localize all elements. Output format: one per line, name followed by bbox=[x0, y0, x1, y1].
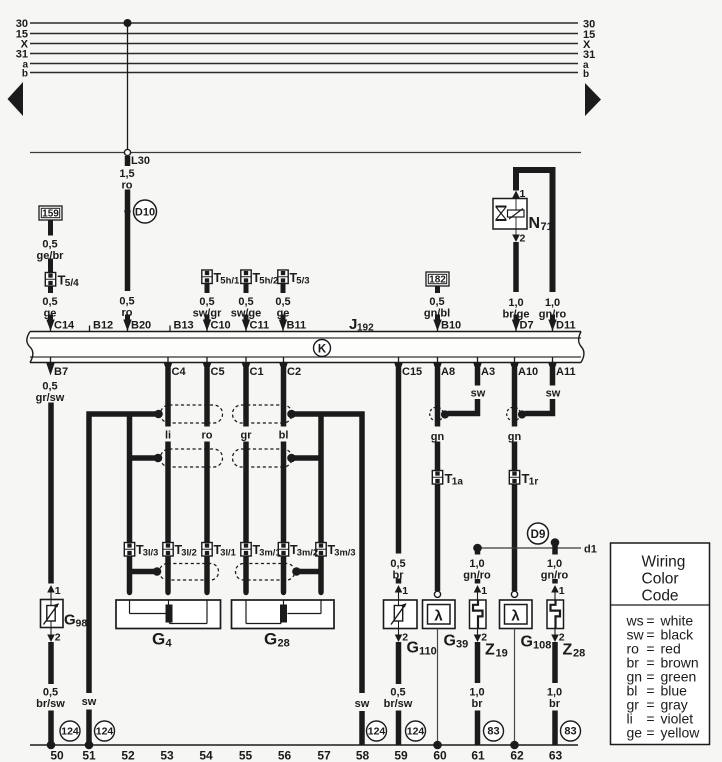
wire bus rail 30 bbox=[30, 22, 578, 24]
wire N71 pin2 down bbox=[513, 242, 519, 292]
svg-text:λ: λ bbox=[511, 608, 520, 625]
node terminal 62 bbox=[510, 741, 519, 750]
svg-text:C15: C15 bbox=[402, 366, 422, 378]
svg-text:51: 51 bbox=[82, 749, 96, 762]
wire A3 upper bbox=[475, 368, 481, 386]
wire bottom terminal rail bbox=[30, 744, 578, 746]
svg-text:G: G bbox=[152, 630, 165, 649]
connector T3m/2 bbox=[278, 543, 288, 557]
svg-text:Color: Color bbox=[642, 571, 679, 588]
connector T1a bbox=[432, 471, 442, 485]
node K circle bbox=[314, 340, 331, 357]
svg-text:63: 63 bbox=[549, 749, 563, 762]
wire shield row3 right bbox=[299, 569, 324, 575]
svg-text:1,0: 1,0 bbox=[545, 297, 560, 309]
svg-text:28: 28 bbox=[278, 638, 290, 650]
svg-text:G: G bbox=[64, 612, 76, 629]
svg-text:br: br bbox=[549, 698, 561, 710]
wire T5/3 down bbox=[281, 284, 286, 294]
svg-text:B10: B10 bbox=[441, 320, 461, 332]
wire to terminal 51 bbox=[86, 710, 92, 746]
pin 2 G98 bbox=[50, 628, 52, 636]
svg-text:sw: sw bbox=[82, 696, 97, 708]
svg-text:2: 2 bbox=[520, 233, 526, 245]
svg-text:98: 98 bbox=[76, 618, 88, 630]
svg-text:39: 39 bbox=[456, 639, 468, 651]
svg-text:C5: C5 bbox=[211, 366, 225, 378]
valve N71 box bbox=[493, 199, 527, 230]
wire bl upper bbox=[281, 368, 287, 427]
wire shield row2 right bbox=[292, 455, 324, 461]
wire bus rail 15 bbox=[30, 33, 578, 35]
wire A11 jumper bbox=[525, 399, 553, 414]
shield C4 C5 row1 bbox=[161, 405, 223, 423]
svg-text:54: 54 bbox=[199, 749, 213, 762]
pin B12 bbox=[89, 326, 91, 339]
sensor G98 bbox=[41, 600, 64, 628]
pin D7 bbox=[514, 315, 519, 321]
node shield right row2 bbox=[287, 454, 296, 463]
svg-text:50: 50 bbox=[50, 749, 64, 762]
wire G98 down bbox=[48, 642, 54, 684]
svg-text:124: 124 bbox=[407, 726, 425, 738]
svg-text:li: li bbox=[165, 430, 171, 442]
wire Z19 upper bbox=[475, 579, 481, 584]
wire ro lower bbox=[204, 442, 210, 544]
svg-text:sw: sw bbox=[471, 388, 486, 400]
ground designation 124 at 59 bbox=[406, 721, 426, 741]
svg-text:1: 1 bbox=[402, 585, 408, 597]
svg-text:19: 19 bbox=[496, 648, 508, 660]
pin 1 Z28 bbox=[551, 585, 559, 593]
splice D9 bbox=[528, 523, 549, 544]
pin C5 bbox=[206, 357, 208, 369]
svg-text:5/4: 5/4 bbox=[65, 278, 79, 289]
pin circle G108 bbox=[511, 591, 517, 597]
wire C15 to G110 bbox=[396, 368, 402, 554]
svg-text:D11: D11 bbox=[556, 320, 576, 332]
svg-text:0,5: 0,5 bbox=[275, 296, 290, 308]
heater Z28 box bbox=[547, 600, 564, 629]
svg-text:1: 1 bbox=[559, 585, 565, 597]
pin C2 bbox=[283, 357, 285, 369]
heater Z19 box bbox=[470, 600, 487, 629]
svg-text:3m/2: 3m/2 bbox=[297, 548, 318, 558]
svg-text:1,0: 1,0 bbox=[547, 687, 562, 699]
svg-text:br: br bbox=[472, 698, 484, 710]
wire 159 to label bbox=[48, 220, 53, 236]
svg-text:159: 159 bbox=[42, 209, 59, 220]
svg-text:2: 2 bbox=[402, 632, 408, 644]
wire bus rail X bbox=[30, 43, 578, 45]
wire G110 upper stub bbox=[396, 579, 402, 584]
shield T3m row3 bbox=[236, 564, 295, 581]
svg-text:5h/1: 5h/1 bbox=[220, 276, 240, 287]
ground designation 124 at 51 bbox=[95, 721, 115, 741]
ground designation 124 at 50 bbox=[60, 721, 80, 741]
svg-text:B7: B7 bbox=[54, 366, 68, 378]
svg-text:1,0: 1,0 bbox=[508, 297, 523, 309]
svg-text:182: 182 bbox=[429, 275, 446, 286]
pin 1 N71 bbox=[512, 191, 520, 199]
wire T3l/3 drop bbox=[127, 412, 133, 544]
ground designation 124 at 58 bbox=[367, 721, 387, 741]
svg-text:4: 4 bbox=[166, 638, 173, 650]
wire d1 rail bbox=[478, 547, 582, 549]
svg-text:D7: D7 bbox=[520, 320, 534, 332]
node shield left row3 bbox=[153, 567, 162, 576]
svg-text:G: G bbox=[444, 633, 456, 650]
wire bus rail b bbox=[30, 72, 578, 74]
pin 1 G98 bbox=[47, 585, 55, 593]
wire A3 jumper bbox=[448, 399, 478, 414]
svg-text:ro: ro bbox=[202, 430, 213, 442]
pin 2 G110 bbox=[398, 629, 400, 636]
pin A11 bbox=[552, 357, 554, 369]
svg-text:1,5: 1,5 bbox=[119, 168, 134, 180]
wire li lower bbox=[165, 442, 171, 544]
svg-text:A11: A11 bbox=[556, 366, 576, 378]
svg-text:3l/2: 3l/2 bbox=[181, 548, 197, 558]
svg-text:sw: sw bbox=[546, 388, 561, 400]
pin C1 bbox=[245, 357, 247, 369]
svg-text:Z: Z bbox=[563, 642, 573, 659]
pin A3 bbox=[477, 357, 479, 369]
svg-text:0,5: 0,5 bbox=[390, 558, 405, 570]
svg-text:ge: ge bbox=[627, 725, 643, 741]
wire label to T5/4 bbox=[48, 259, 53, 273]
pin 1 G110 bbox=[395, 585, 403, 593]
node Z19 tap bbox=[473, 544, 482, 553]
svg-text:1,0: 1,0 bbox=[547, 558, 562, 570]
svg-text:0,5: 0,5 bbox=[43, 687, 58, 699]
wire A11 upper bbox=[550, 368, 556, 386]
pin B7 bbox=[50, 357, 52, 369]
svg-text:55: 55 bbox=[239, 749, 253, 762]
svg-text:110: 110 bbox=[419, 646, 437, 658]
wire shield bus right bbox=[294, 411, 365, 417]
wire bl lower bbox=[281, 442, 287, 544]
svg-text:28: 28 bbox=[573, 648, 585, 660]
node terminal 50 bbox=[47, 741, 56, 750]
pin A10 bbox=[514, 357, 516, 369]
svg-text:br/sw: br/sw bbox=[384, 698, 413, 710]
svg-text:D9: D9 bbox=[531, 529, 546, 541]
svg-text:=: = bbox=[646, 725, 654, 741]
svg-text:57: 57 bbox=[317, 749, 331, 762]
svg-text:B13: B13 bbox=[174, 320, 194, 332]
svg-text:gr: gr bbox=[241, 430, 253, 442]
svg-text:71: 71 bbox=[541, 221, 553, 233]
svg-text:C4: C4 bbox=[172, 366, 187, 378]
pin C11 bbox=[244, 315, 249, 321]
connector T5h/2 bbox=[241, 270, 251, 284]
shield C1 C2 row1 bbox=[233, 405, 293, 423]
wire to terminal 61 bbox=[475, 711, 481, 746]
svg-text:C11: C11 bbox=[250, 320, 270, 332]
wire A8 upper bbox=[435, 368, 441, 427]
shield circle A8 bbox=[430, 407, 444, 421]
wire T3l/2 to sender bbox=[165, 556, 171, 592]
svg-text:G: G bbox=[521, 634, 533, 651]
wire shield row3 left bbox=[128, 569, 155, 575]
svg-text:C10: C10 bbox=[211, 320, 231, 332]
svg-text:3l/1: 3l/1 bbox=[220, 548, 236, 558]
wire A10 upper bbox=[512, 368, 518, 427]
svg-text:0,5: 0,5 bbox=[238, 296, 253, 308]
pin 2 Z28 bbox=[554, 629, 556, 636]
svg-text:Code: Code bbox=[642, 588, 679, 605]
svg-text:G: G bbox=[264, 630, 277, 649]
svg-text:D10: D10 bbox=[135, 207, 155, 219]
node terminal 51 bbox=[85, 741, 94, 750]
svg-text:53: 53 bbox=[160, 749, 174, 762]
svg-text:d1: d1 bbox=[584, 544, 597, 556]
svg-text:61: 61 bbox=[471, 749, 485, 762]
svg-text:A10: A10 bbox=[518, 366, 538, 378]
legend divider bbox=[611, 604, 710, 606]
wire T3l/3 to sender bbox=[127, 556, 133, 592]
shield T3l row3 bbox=[160, 564, 219, 581]
connector T5/3 bbox=[278, 270, 288, 284]
connector T3m/1 bbox=[241, 543, 251, 557]
pin B20 bbox=[125, 315, 130, 321]
component 182 box bbox=[426, 272, 449, 286]
svg-text:B20: B20 bbox=[131, 320, 151, 332]
splice D10 bbox=[134, 200, 157, 223]
wire T5h/2 down bbox=[244, 284, 249, 294]
node shield left row1 bbox=[154, 410, 163, 419]
svg-text:3l/3: 3l/3 bbox=[143, 548, 159, 558]
wire A8 mid bbox=[435, 442, 441, 471]
svg-text:0,5: 0,5 bbox=[390, 687, 405, 699]
svg-text:2: 2 bbox=[55, 632, 61, 644]
connector T5h/1 bbox=[202, 270, 212, 284]
probe G39 box bbox=[423, 600, 456, 629]
svg-text:3m/1: 3m/1 bbox=[259, 548, 280, 558]
svg-text:58: 58 bbox=[356, 749, 370, 762]
node junction on bus 30 bbox=[124, 19, 132, 27]
pin circle G39 bbox=[434, 591, 440, 597]
legend wiring color code box bbox=[611, 543, 710, 745]
wire L30 1,5 ro upper bbox=[125, 156, 131, 166]
shield C4 C5 row2 bbox=[161, 449, 223, 467]
wire B7 to G98 bbox=[48, 403, 54, 584]
wire T3m/1 to sender bbox=[243, 556, 249, 592]
node sw jumper left bbox=[441, 410, 449, 418]
svg-text:K: K bbox=[318, 343, 327, 355]
wire 1,5 ro to B20 bbox=[125, 190, 131, 292]
direction arrow left bbox=[8, 82, 24, 116]
wire Z28 down bbox=[552, 642, 558, 683]
svg-text:56: 56 bbox=[278, 749, 292, 762]
node shield right row3 bbox=[292, 567, 301, 576]
pin B10 bbox=[435, 315, 440, 321]
pin C14 bbox=[48, 315, 53, 321]
svg-text:G: G bbox=[407, 640, 419, 657]
wire shield ground 58 bbox=[359, 412, 365, 694]
node Z28 tap bbox=[551, 538, 560, 547]
svg-text:83: 83 bbox=[564, 726, 576, 738]
svg-text:sw: sw bbox=[355, 698, 370, 710]
svg-text:62: 62 bbox=[510, 749, 524, 762]
pin B11 bbox=[281, 315, 286, 321]
svg-text:br/sw: br/sw bbox=[36, 698, 65, 710]
svg-text:60: 60 bbox=[433, 749, 447, 762]
svg-text:83: 83 bbox=[487, 726, 499, 738]
component 159 box bbox=[39, 206, 62, 220]
wire N71 loop D11 bbox=[516, 170, 553, 292]
connector T1r bbox=[509, 471, 519, 485]
node terminal 60 bbox=[433, 741, 442, 750]
svg-text:Z: Z bbox=[485, 642, 495, 659]
wire to terminal 50 bbox=[48, 711, 54, 746]
wire ro upper bbox=[204, 368, 210, 427]
node L30 junction bbox=[124, 149, 130, 155]
wire A10 mid bbox=[512, 442, 518, 471]
svg-text:1a: 1a bbox=[452, 477, 464, 488]
svg-text:L30: L30 bbox=[131, 155, 150, 167]
svg-text:b: b bbox=[22, 69, 28, 80]
svg-text:1: 1 bbox=[481, 585, 487, 597]
pin A8 bbox=[437, 357, 439, 369]
wire Z19 stub bbox=[475, 548, 481, 555]
pin 2 N71 bbox=[515, 229, 517, 235]
svg-text:0,5: 0,5 bbox=[429, 296, 444, 308]
svg-text:C2: C2 bbox=[287, 366, 301, 378]
direction arrow right bbox=[585, 83, 601, 116]
wire shield row2 left bbox=[127, 455, 156, 461]
pin C15 bbox=[398, 357, 400, 369]
wire shield bus left bbox=[87, 411, 157, 417]
svg-text:b: b bbox=[583, 69, 589, 80]
node shield right row1 bbox=[287, 410, 296, 419]
svg-text:C1: C1 bbox=[250, 366, 264, 378]
svg-text:0,5: 0,5 bbox=[42, 296, 57, 308]
connector T3l/3 bbox=[124, 543, 134, 557]
wire bus rail 31 bbox=[30, 53, 578, 55]
wire 182 down bbox=[435, 286, 440, 293]
wire li upper bbox=[165, 368, 171, 427]
svg-text:124: 124 bbox=[96, 726, 114, 738]
pin C4 bbox=[167, 357, 169, 369]
pin 1 Z19 bbox=[474, 585, 482, 593]
svg-text:108: 108 bbox=[533, 640, 551, 652]
svg-text:3m/3: 3m/3 bbox=[334, 548, 355, 558]
wire to terminal 59 bbox=[396, 711, 402, 746]
connector T5/4 bbox=[45, 273, 55, 287]
svg-text:bl: bl bbox=[279, 430, 289, 442]
connector T3l/2 bbox=[163, 543, 173, 557]
probe G108 box bbox=[500, 600, 533, 629]
wire T3l/1 to sender bbox=[204, 556, 210, 592]
svg-text:52: 52 bbox=[121, 749, 135, 762]
svg-text:2: 2 bbox=[559, 632, 565, 644]
svg-text:0,5: 0,5 bbox=[119, 296, 134, 308]
sensor G110 bbox=[384, 600, 418, 629]
wire G108 to terminal 62 bbox=[514, 629, 516, 743]
svg-text:0,5: 0,5 bbox=[199, 296, 214, 308]
wire G39 to terminal 60 bbox=[437, 629, 439, 743]
svg-text:gn: gn bbox=[431, 431, 445, 443]
svg-text:2: 2 bbox=[481, 632, 487, 644]
svg-text:B12: B12 bbox=[93, 320, 113, 332]
wire T3m/3 drop bbox=[318, 412, 324, 544]
svg-text:124: 124 bbox=[368, 726, 386, 738]
shield C1 C2 row2 bbox=[233, 449, 293, 467]
pin 2 Z19 bbox=[477, 629, 479, 636]
svg-text:0,5: 0,5 bbox=[42, 239, 57, 251]
ground designation 83 at 61 bbox=[484, 721, 504, 741]
wire gr lower bbox=[243, 442, 249, 544]
wire L30 rail bbox=[30, 152, 581, 154]
svg-text:λ: λ bbox=[434, 608, 443, 625]
svg-text:N: N bbox=[529, 215, 541, 232]
svg-text:C14: C14 bbox=[54, 320, 75, 332]
wire T5/4 down bbox=[48, 286, 53, 293]
svg-text:124: 124 bbox=[61, 726, 79, 738]
shield circle A10 bbox=[507, 407, 521, 421]
svg-text:1: 1 bbox=[55, 585, 61, 597]
svg-text:gn: gn bbox=[508, 431, 522, 443]
sender G28 box bbox=[232, 600, 335, 629]
sender G4 box bbox=[116, 600, 221, 629]
wire gr upper bbox=[243, 368, 249, 427]
svg-text:A8: A8 bbox=[441, 366, 455, 378]
node shield left row2 bbox=[154, 454, 163, 463]
wire Z28 stub bbox=[552, 543, 558, 555]
wire Z28 upper bbox=[552, 579, 558, 584]
pin D11 bbox=[550, 315, 555, 321]
svg-text:5/3: 5/3 bbox=[296, 276, 309, 287]
wire shield ground 51 bbox=[86, 412, 92, 694]
svg-text:Wiring: Wiring bbox=[642, 554, 686, 571]
svg-text:B11: B11 bbox=[287, 320, 307, 332]
wire to terminal 58 bbox=[359, 711, 365, 745]
svg-text:yellow: yellow bbox=[661, 725, 701, 741]
wire Z19 down bbox=[475, 642, 481, 683]
control unit J192 bar bbox=[30, 332, 581, 363]
connector T3m/3 bbox=[316, 543, 326, 557]
svg-text:gr/sw: gr/sw bbox=[36, 392, 65, 404]
wire T3m/3 to sender bbox=[318, 556, 324, 592]
svg-text:5h/2: 5h/2 bbox=[259, 276, 278, 287]
wire T1r to G108 bbox=[512, 484, 518, 591]
connector T3l/1 bbox=[202, 543, 212, 557]
svg-text:1r: 1r bbox=[529, 477, 539, 488]
svg-text:0,5: 0,5 bbox=[42, 381, 57, 393]
svg-text:192: 192 bbox=[357, 323, 374, 334]
ground designation 83 at 63 bbox=[561, 721, 581, 741]
pin C10 bbox=[205, 315, 210, 321]
wire to terminal 63 bbox=[552, 711, 558, 746]
node sw jumper right bbox=[518, 410, 526, 418]
wire T5h/1 down bbox=[205, 284, 210, 294]
pin B13 bbox=[169, 326, 171, 339]
wire T1a to G39 bbox=[435, 484, 441, 591]
wire T3m/2 to sender bbox=[281, 556, 287, 592]
svg-text:A3: A3 bbox=[481, 366, 495, 378]
svg-text:1,0: 1,0 bbox=[469, 558, 484, 570]
wire G110 down bbox=[396, 642, 402, 684]
wire bus30 drop to L30 bbox=[127, 23, 129, 153]
node D10 junction bbox=[124, 208, 130, 214]
wire bus rail a bbox=[30, 63, 578, 65]
svg-text:59: 59 bbox=[394, 749, 408, 762]
svg-text:1,0: 1,0 bbox=[469, 687, 484, 699]
